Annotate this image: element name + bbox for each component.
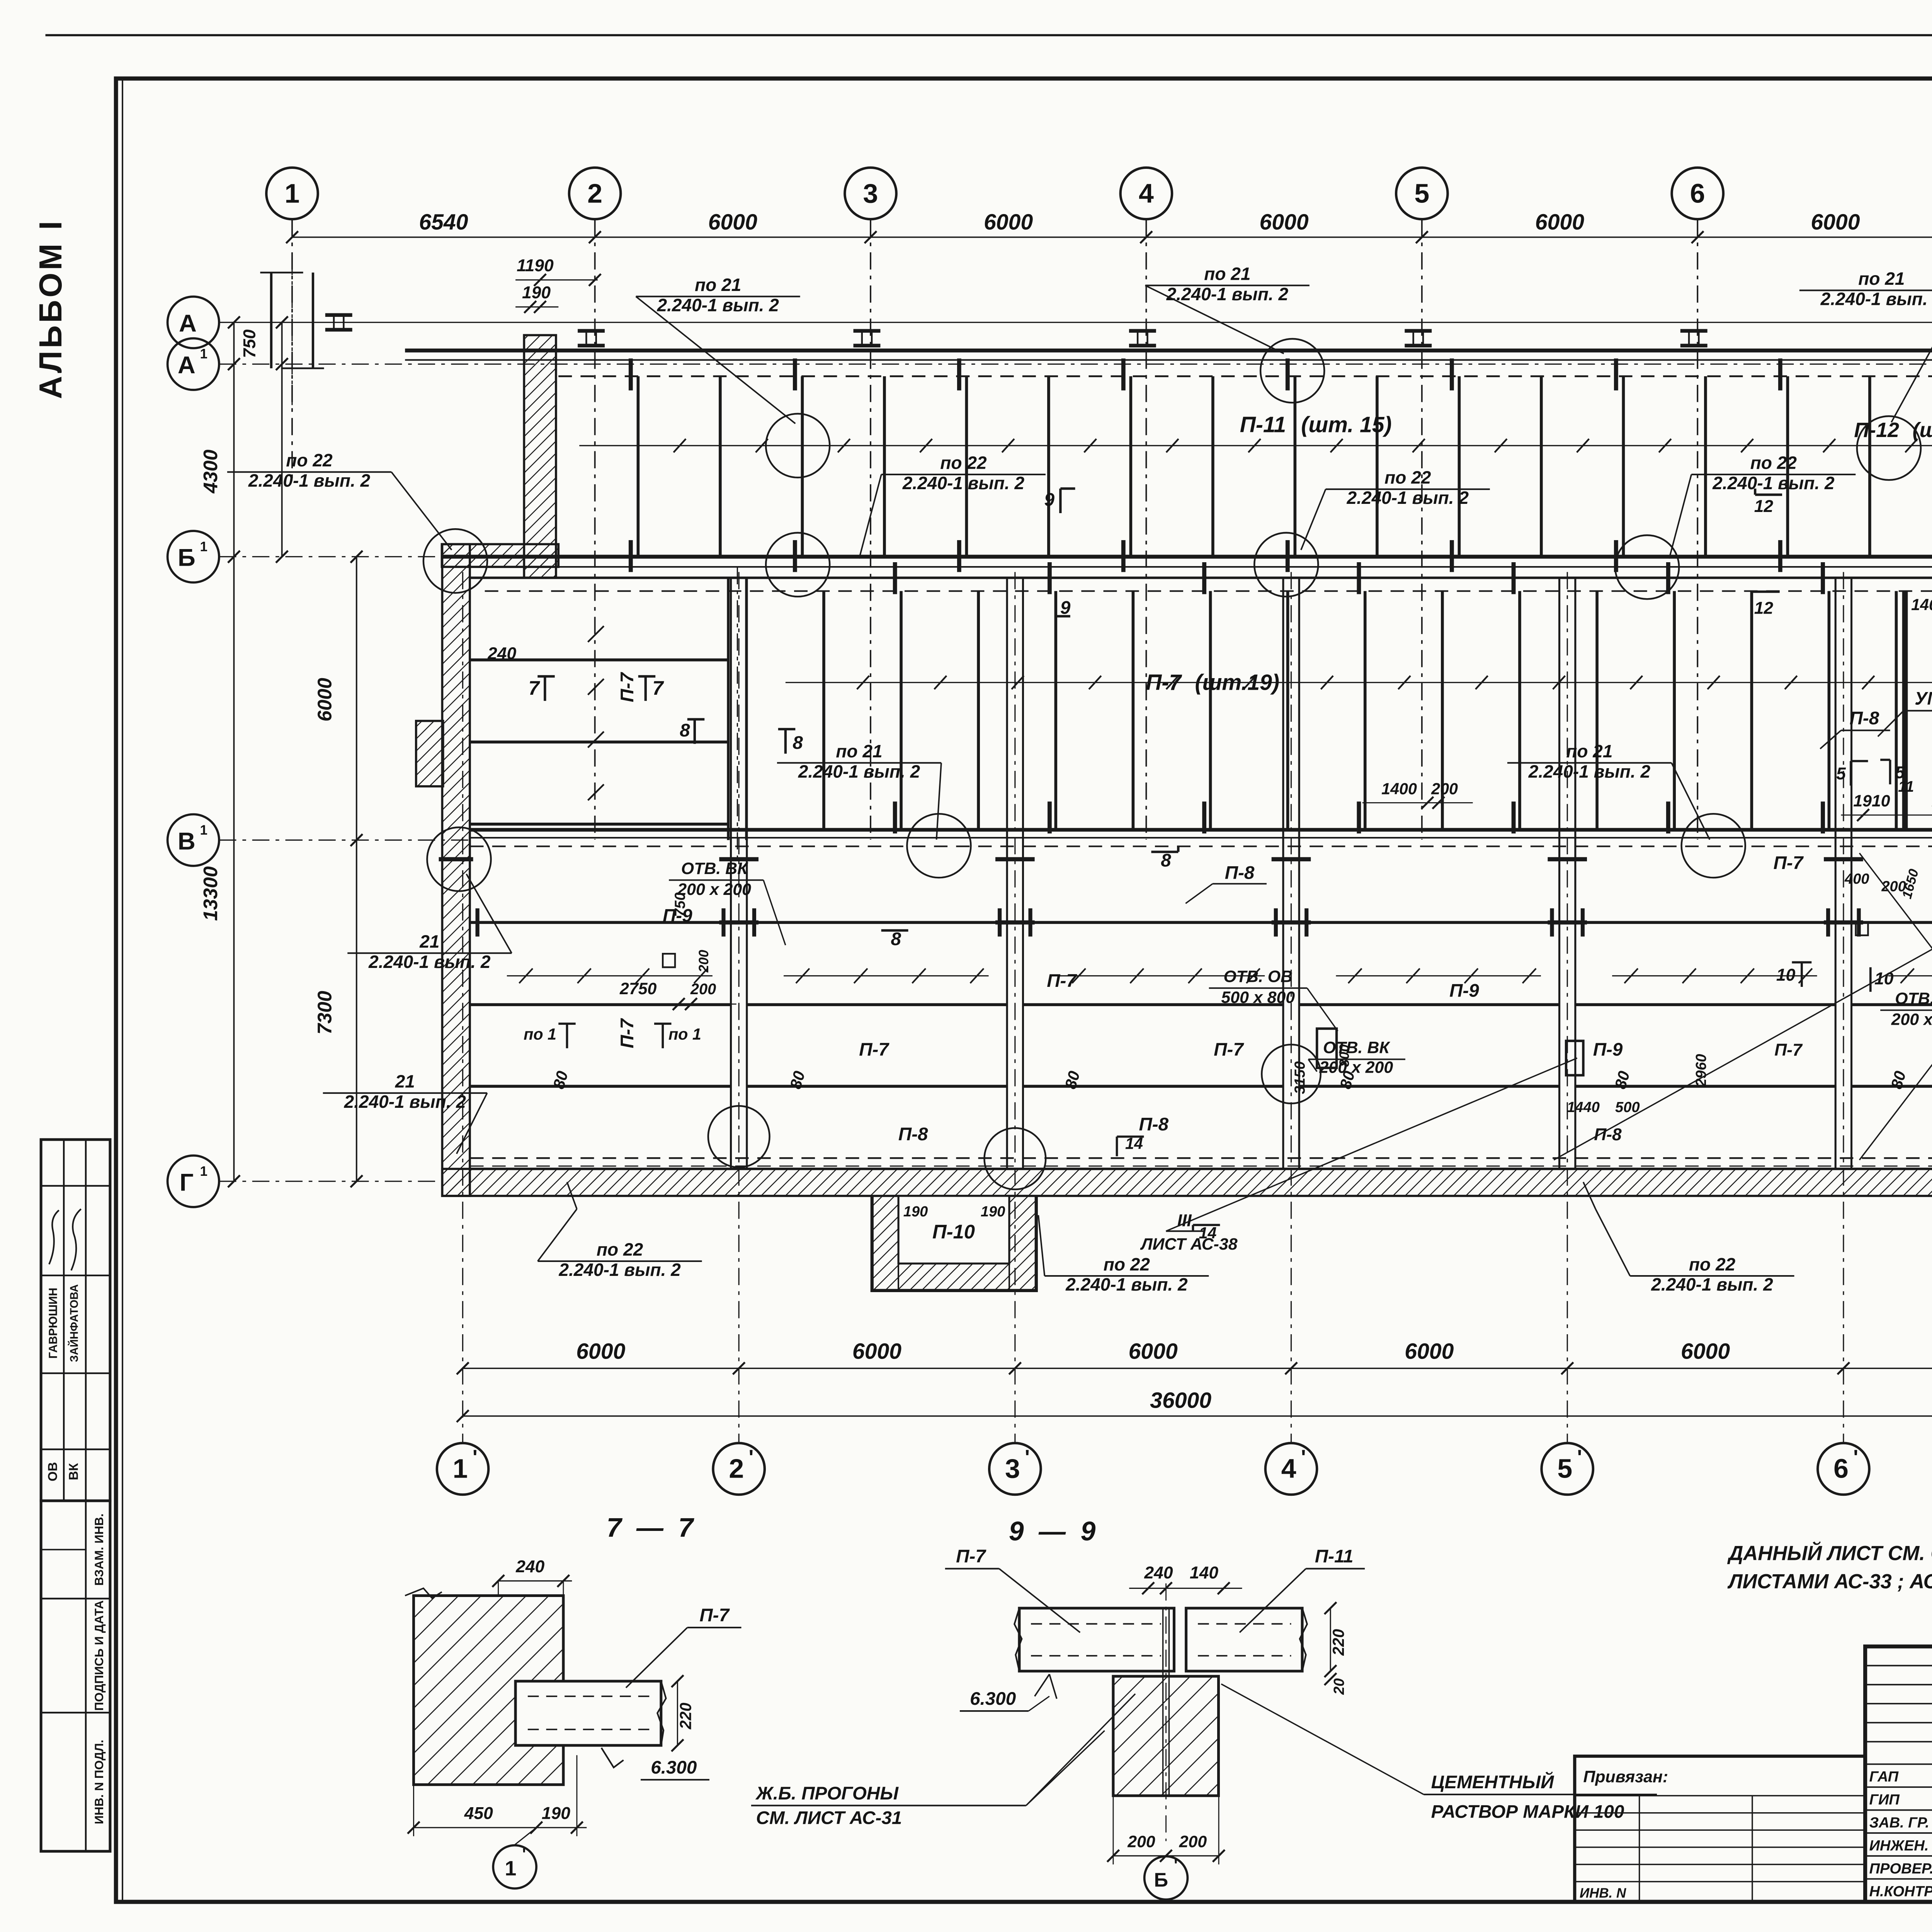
svg-text:П-7: П-7 [859,1039,889,1060]
svg-text:21: 21 [419,931,439,951]
axis A1 dashdot line [219,364,1932,364]
axis V1 line [219,840,470,840]
bottom dim tick [1285,1362,1297,1374]
svg-text:200 x 200: 200 x 200 [1891,1010,1932,1029]
svg-text:ПОДПИСЬ И ДАТА: ПОДПИСЬ И ДАТА [92,1600,106,1711]
axis G1 line [219,1181,442,1182]
annex interior top line [470,577,1932,578]
leader circle top band c [1857,416,1921,480]
svg-text:1400: 1400 [1381,780,1417,798]
svg-text:6000: 6000 [852,1339,901,1364]
svg-text:500 x 800: 500 x 800 [1221,988,1295,1007]
grid dim tick 1 [286,231,298,243]
B1 wall thick line [442,556,1932,557]
svg-text:500: 500 [1615,1099,1640,1116]
lower room 2 beams [747,922,1007,923]
stamp signature squiggle 2 [71,1209,81,1270]
svg-text:750: 750 [672,892,688,917]
leader circle left wall V1 [427,827,491,891]
svg-text:6: 6 [1833,1454,1849,1484]
section 7-7 wall hatch [413,1596,563,1785]
svg-text:П-8: П-8 [1225,863,1255,883]
grid dim tick 5 [1416,231,1428,243]
axis circle G1 [168,1155,219,1207]
svg-text:П-12: П-12 [1854,418,1899,442]
svg-text:': ' [749,1446,754,1469]
grid axis 1 line [292,219,293,479]
annex upper joist anchor stubs [895,562,896,594]
section 9-9 right beam dashes [1198,1624,1291,1624]
column lines axis 6' [1835,578,1836,1169]
upper band joist anchor stubs [630,359,631,391]
svg-text:10: 10 [1776,966,1796,985]
lower room 1 tick line [507,975,713,976]
column lines axis 3' [1007,578,1007,1169]
svg-text:8: 8 [1161,850,1171,871]
svg-text:по 22: по 22 [1384,468,1431,488]
svg-text:7: 7 [529,677,541,699]
svg-text:ЛИСТ АС-38: ЛИСТ АС-38 [1140,1235,1238,1253]
svg-text:ИНВ. N: ИНВ. N [1580,1886,1626,1901]
section 7-7 beam dashes [528,1696,653,1697]
bottom dim tick [1009,1362,1021,1374]
grid axis 3 line [870,219,871,840]
privyazan block outline [1575,1756,1865,1902]
section 9-9 left beam dashes [1031,1624,1161,1624]
top wall dashed line [558,376,1932,377]
svg-text:1: 1 [200,347,207,362]
svg-text:ОТВ. ВК: ОТВ. ВК [1895,990,1932,1008]
svg-text:6.300: 6.300 [970,1689,1016,1709]
leader po21 top right [1891,290,1932,422]
svg-text:А: А [179,310,197,337]
svg-text:П-7: П-7 [1214,1039,1244,1060]
svg-text:1910: 1910 [1853,792,1890,810]
svg-text:200: 200 [696,950,711,973]
inner wall axis dashdot [737,567,738,859]
svg-text:по 22: по 22 [940,453,987,473]
grid circle 2 [569,168,621,219]
section 7-7 circle 1' [493,1845,536,1889]
left dim line outer [233,322,234,1181]
axis circle B1 [168,531,219,582]
svg-text:1440: 1440 [1567,1099,1600,1116]
sheet top edge line [46,35,1932,36]
vk hole marker left [663,954,675,967]
P-10 box outline [872,1196,1036,1291]
top grid dimension line [292,237,1932,238]
section 9-9 top dims [1129,1588,1242,1588]
svg-text:Б: Б [1154,1869,1168,1891]
V1 beam thick line [470,829,1932,830]
B1 wall second line [442,566,1932,567]
vk hole marker right2 [1856,922,1868,935]
stamp lower verticals [85,1501,86,1851]
section 9-9 left beam P-7 [1019,1608,1174,1671]
svg-text:4: 4 [1139,178,1154,208]
column lines axis 2' [731,578,731,1169]
svg-text:2750: 2750 [619,980,657,998]
svg-text:2.240-1 вып. 2: 2.240-1 вып. 2 [1166,284,1289,304]
lower room 3 beams [1023,922,1283,923]
svg-text:по 21: по 21 [1566,741,1612,761]
axis 1' dashdot line [462,572,463,1442]
privyazan rows [1575,1795,1865,1796]
left room tick slashes [588,626,604,642]
svg-text:П-9: П-9 [1593,1039,1623,1060]
svg-text:П-9: П-9 [1449,980,1479,1001]
svg-text:АЛЬБОМ I: АЛЬБОМ I [33,219,68,399]
upper band left wall [524,335,556,578]
lower band column anchors [719,859,759,860]
lower room 5 beams [1575,922,1835,923]
svg-text:': ' [1301,1446,1306,1469]
title block stamp rows [1865,1764,1932,1765]
svg-text:ВЗАМ. ИНВ.: ВЗАМ. ИНВ. [92,1514,106,1586]
svg-text:9: 9 [1044,490,1055,510]
section 9-9 joint lines [1163,1608,1163,1796]
svg-text:': ' [522,1845,526,1863]
svg-text:190: 190 [522,283,551,302]
grid dim tick 2 [589,231,601,243]
svg-text:2.240-1 вып. 2: 2.240-1 вып. 2 [1651,1274,1773,1294]
dim lines near axis2 [515,279,598,280]
I-beam tie symbol near column 1 [325,315,352,316]
svg-text:ГИП: ГИП [1869,1792,1900,1808]
junction circle axis 4' beam [1262,1044,1320,1103]
svg-text:6000: 6000 [1260,210,1309,235]
annex top dashed line [485,591,1932,592]
svg-text:ЗАВ. ГР.: ЗАВ. ГР. [1869,1815,1929,1831]
svg-text:ГАВРЮШИН: ГАВРЮШИН [47,1287,60,1359]
left dim tick [228,1175,240,1187]
svg-text:2.240-1 вып. 2: 2.240-1 вып. 2 [344,1092,466,1112]
junction circle axis 2' dashed [708,1106,770,1167]
sportzal column symbol axis 6 [1680,330,1708,332]
svg-text:6000: 6000 [1811,210,1860,235]
lower room 2 tick line [784,975,988,976]
svg-text:УМ-6: УМ-6 [1915,688,1932,709]
svg-text:2960: 2960 [1693,1054,1709,1087]
svg-text:по 22: по 22 [1750,453,1797,473]
svg-text:ИНВ. N ПОДЛ.: ИНВ. N ПОДЛ. [92,1740,106,1824]
bottom overall dim line [463,1416,1932,1417]
annex left wall [442,544,469,1196]
svg-text:1: 1 [453,1454,468,1484]
svg-text:П-7: П-7 [617,672,638,702]
svg-text:А: А [178,351,196,379]
svg-text:200: 200 [1127,1833,1155,1851]
svg-text:2.240-1 вып. 2: 2.240-1 вып. 2 [1712,473,1835,493]
svg-text:5: 5 [1414,178,1429,208]
left dim line 750 [282,322,282,556]
hole marker mid room [1566,1041,1583,1075]
svg-text:13300: 13300 [199,866,221,921]
section 9-9 right beam break [1300,1608,1307,1671]
svg-text:200: 200 [1431,780,1458,798]
left room beams [470,660,728,660]
stamp verticals upper [63,1139,64,1501]
section 7-7 beam P-7 [515,1681,661,1745]
svg-text:СМ. ЛИСТ АС-31: СМ. ЛИСТ АС-31 [756,1808,902,1828]
svg-text:РАСТВОР МАРКИ 100: РАСТВОР МАРКИ 100 [1431,1801,1624,1822]
svg-text:П-11: П-11 [1240,412,1286,437]
inner wall left room [728,578,729,840]
privyazan verticals [1639,1796,1640,1902]
svg-text:В: В [178,827,196,855]
bottom dim line [463,1368,1932,1369]
svg-text:5: 5 [1836,764,1846,783]
diagonal cross right room [1859,853,1932,1160]
svg-text:1190: 1190 [517,256,554,275]
svg-text:2.240-1 вып. 2: 2.240-1 вып. 2 [798,761,920,781]
svg-text:8: 8 [891,929,901,949]
section 7-7 dim 240 [498,1580,572,1581]
svg-text:2.240-1 вып. 2: 2.240-1 вып. 2 [902,473,1025,493]
svg-text:190: 190 [981,1204,1005,1220]
leader po21 top left [636,296,796,423]
svg-text:6540: 6540 [419,210,468,235]
section 9-9 dim 220 right [1330,1608,1331,1671]
section 7-7 wall top break [405,1588,442,1598]
svg-text:П-7: П-7 [1146,670,1182,695]
svg-text:ОВ: ОВ [46,1462,60,1481]
svg-text:200: 200 [690,981,716,998]
axis circle A [168,297,219,348]
svg-text:6000: 6000 [314,678,336,721]
grid dim tick 6 [1692,231,1704,243]
svg-text:6000: 6000 [1405,1339,1454,1364]
axis A line [219,322,1932,323]
svg-text:по 21: по 21 [1204,264,1250,284]
lower room 6 tick line [1888,975,1932,976]
annex bottom wall G1 [442,1169,1932,1196]
dim line left room small [530,1004,736,1005]
grid circle 1 [266,168,318,219]
svg-text:9: 9 [1060,597,1071,618]
svg-text:240: 240 [515,1557,544,1576]
lower room 4 beams [1299,922,1559,923]
column lines axis 5' [1559,578,1560,1169]
svg-text:П-11: П-11 [1315,1546,1354,1567]
svg-text:ЦЕМЕНТНЫЙ: ЦЕМЕНТНЫЙ [1431,1771,1554,1793]
upper band joists [638,376,638,557]
svg-text:(шт. 15): (шт. 15) [1301,412,1391,437]
svg-text:Г: Г [180,1168,194,1196]
svg-text:ДАННЫЙ ЛИСТ СМ. СОВМЕСТНО: ДАННЫЙ ЛИСТ СМ. СОВМЕСТНО С [1727,1541,1932,1565]
P-10 inner rect [898,1196,1009,1264]
lower room 6 beams [1852,922,1932,923]
grid dim tick 4 [1140,231,1152,243]
svg-text:': ' [1174,1856,1178,1874]
upper band tick line [579,445,1932,446]
lower room 4 tick line [1336,975,1541,976]
svg-text:190: 190 [903,1204,928,1220]
svg-text:1: 1 [200,823,207,838]
svg-text:140: 140 [1190,1563,1218,1582]
axis 4' dashdot line [1291,572,1292,1442]
section 9-9 left beam break [1014,1608,1022,1671]
P-10 box right wall hatch [1009,1196,1036,1291]
axis 3' dashdot line [1015,572,1015,1442]
stamp lower dividers [41,1598,110,1599]
grid axis 5 line [1422,219,1422,840]
svg-text:8: 8 [680,720,690,741]
left dim line inner [356,557,357,1181]
junction circle axis 3' dashed [984,1128,1046,1189]
sportzal column symbol axis 5 [1405,330,1432,332]
svg-text:750: 750 [240,329,259,358]
leader circle B1 wall b [1254,533,1318,597]
svg-text:400: 400 [1844,871,1869,887]
svg-text:': ' [1025,1446,1030,1469]
svg-text:12: 12 [1754,599,1774,617]
bottom dim tick [733,1362,745,1374]
svg-text:Привязан:: Привязан: [1583,1767,1668,1786]
outer wall anchors lower band [439,859,473,860]
lower room 5 tick line [1612,975,1817,976]
svg-text:21: 21 [395,1071,415,1091]
bottom grid circle 5' [1542,1443,1593,1495]
svg-text:П-7: П-7 [1774,1041,1803,1060]
leader circle V1 a [907,814,971,878]
svg-text:4300: 4300 [199,449,221,493]
svg-text:по 21: по 21 [1858,269,1905,289]
svg-text:по 1: по 1 [668,1026,701,1043]
left dim tick inner [350,834,362,846]
ov hole rect [1317,1029,1337,1068]
axis 6' dashdot line [1843,572,1844,1442]
section 9-9 axis dashdot [1166,1583,1167,1841]
title block outline [1865,1646,1932,1902]
svg-text:7300: 7300 [314,991,336,1034]
B1 wall hatched left segment [442,544,558,567]
svg-text:ВК: ВК [67,1463,81,1480]
section 9-9 pier hatch [1113,1676,1219,1796]
sportzal column symbol axis 4 [1129,330,1156,332]
section 7-7 beam break [657,1681,666,1745]
UM-6 element line [1896,591,1896,830]
grid axis 4 line [1146,219,1146,840]
svg-text:ОТВ. ВК: ОТВ. ВК [681,859,748,878]
lower room 1 beams [470,922,731,923]
V1 dashed lines [470,846,1932,847]
sportzal column symbol axis 3 [854,330,881,332]
svg-text:8: 8 [793,733,803,753]
svg-text:140: 140 [1911,596,1932,614]
svg-text:6000: 6000 [1681,1339,1730,1364]
section 9-9 circle B1 [1145,1856,1188,1900]
svg-text:2.240-1 вып. 2: 2.240-1 вып. 2 [1347,488,1469,508]
svg-text:2.240-1 вып. 2: 2.240-1 вып. 2 [1528,761,1651,781]
svg-text:Н.КОНТР.: Н.КОНТР. [1869,1884,1932,1900]
svg-text:190: 190 [542,1804,570,1823]
grid circle 6 [1672,168,1723,219]
top wall thick line [405,350,1932,351]
lower band anchor stubs [477,908,478,937]
bottom grid circle 2' [713,1443,764,1495]
bottom grid circle 6' [1818,1443,1869,1495]
svg-text:20: 20 [1331,1678,1347,1695]
stamp dividers upper [41,1185,110,1186]
svg-text:7: 7 [652,677,664,699]
left stamp lower box [41,1501,110,1851]
leader circle B1 left corner [423,529,487,593]
bottom dim tick [1561,1362,1573,1374]
svg-text:200: 200 [1179,1833,1207,1851]
svg-text:П-10: П-10 [932,1221,975,1243]
svg-text:ПРОВЕР.: ПРОВЕР. [1869,1861,1932,1877]
grid circle 4 [1121,168,1172,219]
grid circle 3 [845,168,896,219]
svg-text:800: 800 [1337,1044,1352,1067]
svg-text:1: 1 [505,1857,516,1880]
svg-text:220: 220 [677,1702,694,1730]
svg-text:П-7: П-7 [617,1018,638,1048]
svg-text:6000: 6000 [1129,1339,1178,1364]
svg-text:по 22: по 22 [597,1240,643,1260]
svg-text:П-7: П-7 [1774,853,1804,873]
svg-text:П-8: П-8 [898,1124,928,1145]
svg-text:5: 5 [1557,1454,1572,1484]
svg-text:2.240-1 вып. 2: 2.240-1 вып. 2 [1820,289,1932,309]
svg-text:4: 4 [1281,1454,1296,1484]
left dim tick inner [350,1175,362,1187]
svg-text:36000: 36000 [1150,1388,1211,1413]
top wall inner line [405,360,1932,361]
svg-text:П-7: П-7 [699,1605,730,1626]
svg-text:3: 3 [1005,1454,1020,1484]
P-10 box left wall hatch [872,1196,898,1291]
leader circle V1 b [1682,814,1745,878]
section 9-9 right beam P-11 [1186,1608,1302,1671]
axis circle A1 [168,338,219,390]
bottom grid circle 1' [437,1443,488,1495]
sportzal column symbol axis 2 [578,330,605,332]
svg-text:6000: 6000 [576,1339,625,1364]
svg-text:': ' [473,1446,478,1469]
annex upper joists [823,591,824,830]
bottom grid circle 4' [1265,1443,1317,1495]
svg-text:6: 6 [1690,178,1705,208]
svg-text:7 — 7: 7 — 7 [607,1512,697,1543]
lower room 3 tick line [1060,975,1265,976]
portal column at axis 1 [271,272,272,368]
svg-text:3150: 3150 [1292,1061,1308,1094]
section 7-7 bottom dims [413,1827,587,1828]
svg-text:ОТВ. ВК: ОТВ. ВК [1323,1039,1390,1057]
leader circle top band a [766,414,830,478]
left dim tick inner [350,551,362,563]
svg-text:3: 3 [863,178,878,208]
svg-text:по 21: по 21 [836,741,882,761]
svg-text:П-8: П-8 [1139,1114,1168,1135]
svg-text:по 21: по 21 [695,275,741,295]
left dim tick [228,358,240,370]
svg-text:': ' [1853,1446,1858,1469]
svg-text:5: 5 [1895,763,1905,782]
svg-text:1: 1 [285,178,300,208]
small dim lines annex right [1841,815,1932,815]
grid dim tick 3 [864,231,876,243]
bottom grid circle 3' [989,1443,1041,1495]
svg-text:ГАП: ГАП [1869,1769,1899,1785]
svg-text:1: 1 [200,1164,207,1179]
svg-text:12: 12 [1754,497,1774,516]
svg-text:по 22: по 22 [1689,1254,1736,1274]
left dim tick [228,316,240,328]
svg-text:6000: 6000 [708,210,757,235]
